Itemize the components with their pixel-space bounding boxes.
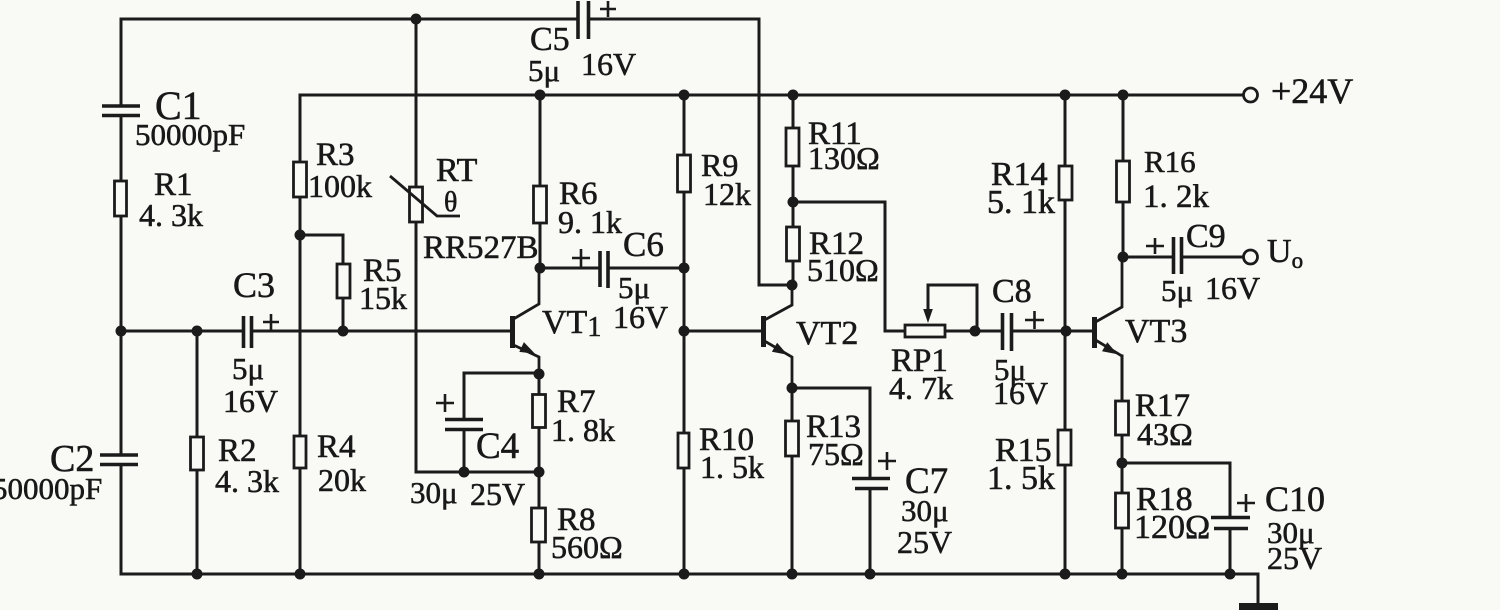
junction R16 top: [1118, 90, 1129, 101]
svg-text:25V: 25V: [470, 476, 525, 512]
resistor R5: [337, 264, 350, 298]
junction C4 bottom: [459, 467, 470, 478]
wire R3 branch (+24V rail to node A): [299, 95, 302, 235]
junction VT2 emitter node: [787, 383, 798, 394]
transistor VT3 emitter: [1096, 340, 1123, 374]
capacitor C6 plates: [600, 251, 608, 288]
potentiometer RP1 wiper arrow: [923, 309, 933, 323]
junction VT3 collector / C9: [1118, 252, 1129, 263]
polarity plus C6: [572, 249, 590, 267]
wire R13 bottom to ground: [791, 456, 794, 574]
svg-text:R4: R4: [317, 429, 356, 465]
wire C9 right plate to output terminal: [1183, 256, 1243, 259]
wire C4 top plate to VT1 emitter node: [464, 373, 539, 417]
wire R15 branch (VT3 base node to ground): [1064, 331, 1067, 574]
svg-text:VT3: VT3: [1125, 313, 1187, 350]
svg-text:43Ω: 43Ω: [1137, 416, 1193, 452]
wire R14 branch (+24V rail to VT3 base node): [1064, 95, 1067, 331]
svg-text:Uo: Uo: [1267, 233, 1303, 273]
svg-text:30μ: 30μ: [901, 493, 949, 528]
svg-text:VT1: VT1: [542, 304, 601, 343]
svg-text:5μ: 5μ: [1161, 273, 1193, 308]
polarity plus C9: [1146, 238, 1164, 254]
wire left column top (top rail to C1 top plate): [120, 19, 123, 104]
wire C8 right plate to VT3 base: [1012, 330, 1093, 333]
junction ground R2: [192, 569, 203, 580]
junction C6 / R9 bottom: [679, 263, 690, 274]
svg-text:100k: 100k: [308, 168, 372, 204]
wire R6 branch (+24V rail to VT1 collector node): [539, 95, 542, 268]
svg-text:+24V: +24V: [1271, 71, 1353, 111]
svg-text:50000pF: 50000pF: [135, 117, 245, 152]
junction ground R4: [295, 569, 306, 580]
wire +24V rail: [300, 94, 1243, 97]
transistor VT1 collector: [514, 268, 540, 319]
wire VT1 emitter node to R7: [538, 374, 541, 395]
junction RP1 right terminal: [970, 326, 981, 337]
svg-text:9. 1k: 9. 1k: [558, 204, 622, 240]
junction R2 top: [192, 326, 203, 337]
svg-text:510Ω: 510Ω: [807, 252, 879, 288]
svg-text:20k: 20k: [318, 462, 366, 498]
svg-text:16V: 16V: [1205, 270, 1260, 306]
polarity plus C10: [1237, 494, 1255, 512]
svg-text:C9: C9: [1186, 218, 1226, 255]
svg-text:C6: C6: [623, 225, 664, 264]
wire top feedback rail left (C1 top to C5 left plate): [121, 18, 577, 21]
svg-text:120Ω: 120Ω: [1134, 509, 1210, 546]
wire C6 node down to VT2 base node: [683, 268, 686, 331]
junction VT1 emitter node: [534, 369, 545, 380]
wire VT1 collector node to C6 left plate: [540, 267, 598, 270]
capacitor C2 plates: [100, 455, 138, 465]
wire input node down to C2 top plate: [120, 331, 123, 453]
resistor R4: [294, 436, 306, 468]
svg-text:1. 5k: 1. 5k: [987, 460, 1055, 497]
wire R4 branch (node A to ground, crossing signal line): [299, 235, 302, 574]
wire C10 bottom to ground: [1229, 531, 1232, 574]
svg-text:θ: θ: [444, 187, 457, 218]
junction ground R18: [1117, 569, 1128, 580]
resistor R1: [115, 181, 127, 216]
svg-text:25V: 25V: [1267, 540, 1322, 576]
transistor VT3 base bar: [1092, 317, 1097, 348]
junction R7/R8 node: [534, 467, 545, 478]
wire R17/R18 node to C10 top: [1122, 463, 1230, 515]
svg-text:1. 5k: 1. 5k: [700, 449, 764, 485]
polarity plus C5: [600, 1, 616, 17]
svg-text:4. 3k: 4. 3k: [215, 463, 279, 499]
resistor R11: [786, 128, 799, 166]
svg-text:C10: C10: [1265, 479, 1325, 519]
junction R11/R12 node: [788, 197, 799, 208]
svg-text:30μ: 30μ: [410, 475, 458, 510]
wire VT2 base lead: [684, 330, 762, 333]
junction ground C7: [865, 569, 876, 580]
resistor R16: [1117, 161, 1130, 202]
svg-text:C3: C3: [233, 265, 275, 305]
resistor R14: [1059, 166, 1072, 200]
wire R11 branch (+24V rail to R12 node): [792, 95, 795, 202]
junction R11 top: [788, 90, 799, 101]
polarity plus C3: [263, 314, 279, 330]
resistor R17: [1116, 401, 1129, 435]
polarity plus C4: [436, 394, 454, 412]
ground symbol: [1239, 603, 1278, 610]
resistor R2: [191, 437, 204, 470]
resistor R3: [294, 162, 307, 197]
capacitor C9 plates: [1174, 237, 1182, 274]
junction R17/R18 node: [1117, 458, 1128, 469]
transistor VT3 collector: [1096, 257, 1123, 322]
terminal Uo circle: [1244, 250, 1258, 264]
wire node A to R5 top: [300, 235, 343, 264]
wire signal line left (input node to C3 left plate): [121, 330, 242, 333]
transistor VT1 base bar: [510, 316, 515, 348]
wire signal line C3 right plate to VT1 base: [253, 330, 511, 333]
svg-text:4. 3k: 4. 3k: [139, 197, 203, 233]
junction R6 top: [535, 90, 546, 101]
wire RT bottom to emitter resistor node: [416, 222, 539, 472]
svg-text:4. 7k: 4. 7k: [889, 370, 953, 406]
junction ground R8: [534, 569, 545, 580]
svg-text:16V: 16V: [613, 299, 668, 335]
resistor R12: [787, 227, 800, 261]
svg-text:5μ: 5μ: [232, 351, 264, 386]
junction R5 bottom: [338, 326, 349, 337]
wire C5 right plate to VT2 collector node: [589, 19, 790, 285]
wire C9 node to C9 left plate: [1123, 256, 1172, 259]
wire R5 bottom to signal line: [342, 298, 345, 331]
junction ground C10: [1225, 569, 1236, 580]
wire VT2 base node down through R10 to ground: [683, 331, 686, 574]
resistor R15: [1058, 430, 1071, 465]
capacitor C5 plates: [578, 1, 589, 39]
svg-text:16V: 16V: [223, 383, 278, 419]
transistor VT1 emitter arrow: [519, 342, 535, 354]
wire C6 right plate to R9 bottom node: [610, 267, 685, 270]
wire VT2 emitter node to C7 top: [792, 388, 870, 476]
wire C1 bottom plate to R1 top: [120, 117, 123, 181]
capacitor C3 plates: [244, 316, 252, 348]
wire RP1 right terminal to C8 left plate: [945, 330, 1001, 333]
transistor VT1 emitter: [514, 345, 540, 374]
junction input node: [116, 326, 127, 337]
transistor VT2 emitter: [765, 341, 793, 388]
svg-text:50000pF: 50000pF: [0, 471, 102, 506]
transistor VT2 emitter arrow: [772, 343, 788, 355]
junction ground R10: [679, 569, 690, 580]
capacitor C7 plates: [852, 479, 890, 489]
junction VT3 base / R14-R15: [1061, 326, 1072, 337]
transistor VT3 emitter arrow: [1102, 342, 1118, 354]
thermistor RT body: [410, 187, 423, 222]
wire R7 bottom to R8 top node: [538, 428, 541, 509]
thermistor RT diagonal stroke: [390, 176, 460, 216]
capacitor C8 plates: [1003, 313, 1012, 351]
polarity plus C8: [1025, 311, 1044, 329]
junction top rail / RT: [411, 14, 422, 25]
svg-text:5μ: 5μ: [528, 53, 560, 88]
wire R17 bottom to R18 top node: [1121, 435, 1124, 493]
resistor R13: [786, 421, 799, 456]
capacitor C10 plates: [1211, 518, 1250, 529]
wire C4 bottom plate to R7/R8 node: [463, 432, 466, 472]
polarity plus C7: [878, 452, 896, 470]
svg-text:C4: C4: [476, 426, 519, 467]
wire R1 bottom to input node: [120, 216, 123, 331]
svg-text:560Ω: 560Ω: [551, 529, 623, 565]
wire R16 branch (+24V rail to C9 node): [1122, 95, 1125, 257]
svg-text:5. 1k: 5. 1k: [987, 184, 1055, 221]
wire R8 bottom to ground: [538, 542, 541, 574]
svg-text:15k: 15k: [359, 280, 407, 316]
resistor R9: [678, 155, 691, 192]
svg-text:75Ω: 75Ω: [808, 436, 864, 472]
wire RP1 wiper bracket to right terminal: [928, 285, 977, 331]
junction ground R15: [1060, 569, 1071, 580]
wire VT2 emitter node to R13: [791, 388, 794, 421]
svg-text:C8: C8: [992, 273, 1032, 310]
svg-text:16V: 16V: [581, 46, 636, 82]
resistor R10: [678, 433, 689, 468]
svg-text:12k: 12k: [703, 176, 751, 212]
resistor R8: [532, 508, 546, 542]
junction R14 top: [1060, 90, 1071, 101]
wire R18 bottom to ground: [1121, 528, 1124, 574]
wire R11/R12 node to RP1 left terminal: [793, 202, 905, 331]
svg-text:1. 8k: 1. 8k: [551, 412, 615, 448]
resistor R6: [534, 186, 547, 223]
resistor R7: [533, 395, 546, 428]
wire R12 (node to VT2 collector node): [792, 202, 795, 285]
junction R9 top: [679, 90, 690, 101]
svg-text:R16: R16: [1144, 144, 1196, 179]
svg-text:VT2: VT2: [796, 315, 858, 352]
junction node A (R3/R4/R5): [295, 230, 306, 241]
svg-text:RT: RT: [436, 152, 478, 189]
svg-text:1. 2k: 1. 2k: [1143, 179, 1210, 215]
wire R9 branch (+24V rail down to C6 node): [683, 95, 686, 268]
wire R2 branch (signal line to ground): [196, 331, 199, 574]
wire C7 bottom to ground: [869, 491, 872, 574]
terminal +24V circle: [1244, 88, 1258, 102]
wire ground rail: [121, 574, 1258, 603]
junction ground R13: [787, 569, 798, 580]
capacitor C4 plates: [445, 420, 483, 430]
svg-text:16V: 16V: [993, 375, 1048, 411]
wire RT branch from top rail crossing +24V rail: [415, 19, 418, 187]
capacitor C1 plates: [102, 106, 140, 116]
svg-text:25V: 25V: [897, 524, 952, 560]
svg-text:RR527B: RR527B: [423, 230, 539, 266]
resistor R18: [1116, 493, 1129, 528]
wire C2 bottom plate to ground rail: [120, 466, 123, 574]
transistor VT2 collector: [765, 285, 793, 320]
potentiometer RP1 body: [905, 325, 945, 337]
junction VT1 collector / C6: [535, 263, 546, 274]
junction VT2 collector node: [787, 280, 798, 291]
junction VT2 base line: [679, 326, 690, 337]
svg-text:130Ω: 130Ω: [808, 140, 880, 176]
wire VT3 emitter to R17: [1121, 356, 1124, 401]
transistor VT2 base bar: [761, 316, 766, 347]
